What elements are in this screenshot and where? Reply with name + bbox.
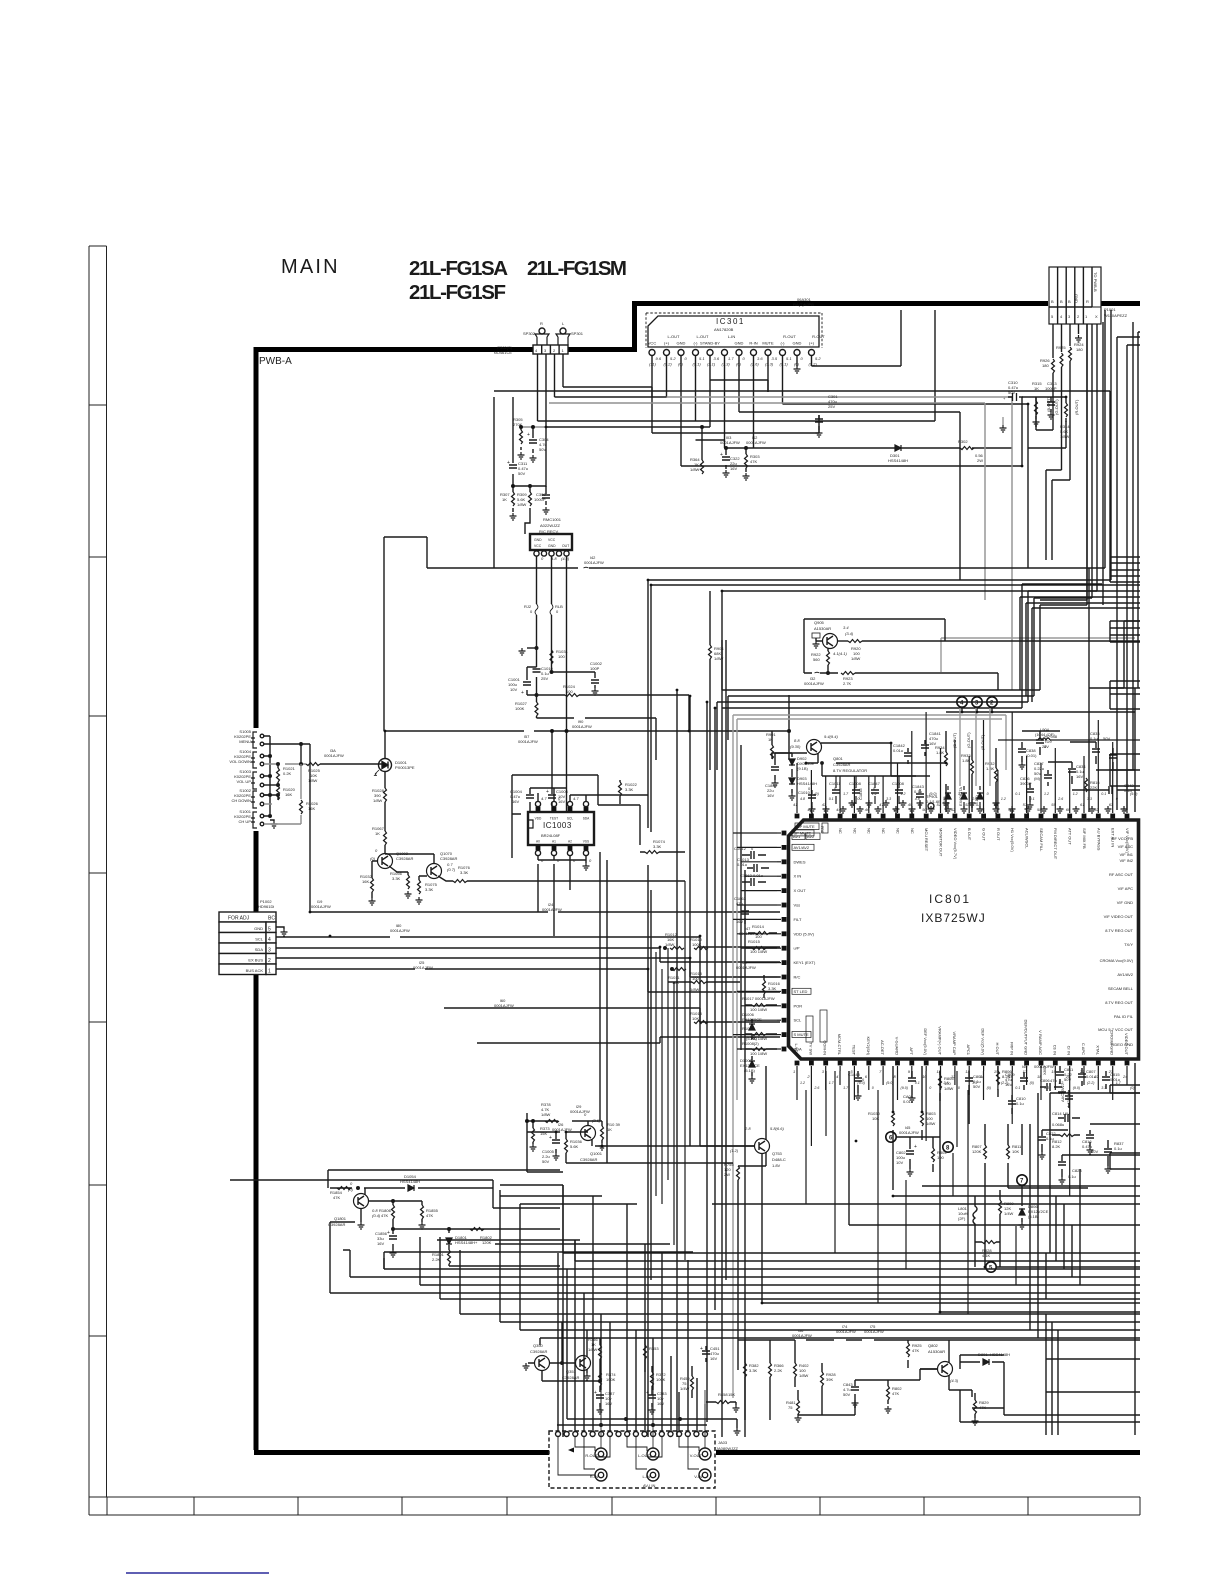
svg-text:0001AJFW: 0001AJFW: [413, 965, 433, 970]
diode D1007 EX1360CE: [740, 1056, 760, 1083]
svg-text:22: 22: [1042, 744, 1047, 749]
svg-text:SIF MIX FB: SIF MIX FB: [1082, 828, 1087, 849]
capacitor C833 0.1u 50V: [1090, 731, 1110, 764]
resistor R1806 47K: [379, 1201, 395, 1229]
svg-text:L-VOL: L-VOL: [794, 1043, 799, 1055]
svg-text:CH DOWN: CH DOWN: [231, 798, 251, 803]
connector P1001 TO PWB-B: [1049, 267, 1128, 324]
svg-text:16K: 16K: [308, 806, 315, 811]
resistor R802 47K: [885, 1380, 903, 1413]
svg-text:3.3: 3.3: [1101, 1086, 1106, 1090]
svg-text:120K: 120K: [972, 1149, 982, 1154]
svg-text:100 1/8W: 100 1/8W: [750, 1051, 767, 1056]
wire mid horizontals: [717, 640, 1040, 770]
op-amp IC801 IXB725WJ main chip body: [789, 820, 1139, 1059]
capacitor C1012: [734, 846, 766, 859]
resistor R812 8.2K: [1052, 1134, 1080, 1150]
led D1001 PX0013PE: [375, 759, 415, 776]
svg-text:(9.1): (9.1): [780, 362, 789, 367]
svg-text:PX0013PE: PX0013PE: [395, 765, 415, 770]
svg-text:(3.4): (3.4): [845, 631, 854, 636]
wire q1002 base: [372, 861, 378, 878]
svg-text:SDA: SDA: [583, 817, 590, 821]
resistor R1018 10K: [690, 1011, 708, 1024]
svg-text:0001AJFW: 0001AJFW: [746, 440, 766, 445]
svg-text:BUS ACK: BUS ACK: [246, 968, 264, 973]
svg-text:3.3K: 3.3K: [768, 986, 777, 991]
svg-text:47K: 47K: [979, 1405, 986, 1410]
svg-text:NC: NC: [867, 828, 872, 834]
svg-text:IXB725WJ: IXB725WJ: [921, 911, 986, 925]
svg-text:2.8: 2.8: [744, 1126, 751, 1131]
capacitor C1003 10u 16V: [546, 788, 569, 814]
svg-text:3.3: 3.3: [1087, 797, 1092, 801]
svg-text:1/4W: 1/4W: [1004, 1211, 1014, 1216]
transistor Q1001 C3928AR: [580, 1112, 603, 1162]
wire l57 long run: [384, 695, 789, 760]
transistor Q905 A1530AR: [709, 591, 1141, 770]
diode D903 HSS4148H: [789, 773, 818, 800]
svg-text:+: +: [914, 1144, 917, 1150]
svg-text:5.1: 5.1: [699, 356, 705, 361]
svg-text:3.6: 3.6: [714, 356, 720, 361]
wire long verticals below chip: [762, 1071, 1140, 1338]
svg-text:H OUT: H OUT: [995, 1043, 1000, 1056]
diode trio D908 D909 D907 EX0263TA: [942, 732, 985, 808]
svg-text:15K: 15K: [540, 1131, 547, 1136]
pin numbers top: [793, 802, 1128, 812]
svg-text:16V: 16V: [730, 466, 737, 471]
resistor R1012 16K 1/8W: [664, 932, 740, 1024]
node 6: [886, 1132, 940, 1142]
SEC_BOTTOM: [328, 1102, 1140, 1488]
wire l79 run: [444, 1008, 780, 1022]
right pin labels: [1098, 836, 1134, 1047]
svg-text:47K: 47K: [750, 459, 757, 464]
wire horizontals right lower: [712, 1093, 1140, 1204]
svg-text:A022WJZZ: A022WJZZ: [540, 523, 561, 528]
svg-text:XTAL: XTAL: [1095, 1045, 1100, 1055]
svg-text:SCL: SCL: [255, 937, 264, 942]
resistor R804 100: [932, 1137, 948, 1172]
svg-text:50V: 50V: [843, 1392, 850, 1397]
svg-text:1.7: 1.7: [843, 792, 849, 796]
ic IC1003 BR24L08F: [528, 788, 594, 870]
svg-text:C1012: C1012: [734, 846, 747, 851]
resistor R816 22K: [1085, 778, 1101, 792]
svg-text:AU BYPASS: AU BYPASS: [1096, 828, 1101, 851]
svg-text:(M): (M): [1034, 776, 1041, 781]
svg-text:0.1u: 0.1u: [1114, 1146, 1122, 1151]
wire speaker drops: [538, 354, 564, 427]
svg-text:(9.0): (9.0): [901, 1086, 908, 1090]
svg-text:4.8: 4.8: [915, 797, 920, 801]
svg-text:Q351: Q351: [566, 1369, 577, 1374]
svg-text:IC1003: IC1003: [543, 821, 572, 830]
svg-text:0001AJFW: 0001AJFW: [570, 1109, 590, 1114]
resistor R926 180: [1040, 358, 1055, 430]
svg-text:MCU 5.7 VCC OUT: MCU 5.7 VCC OUT: [1098, 1027, 1133, 1032]
svg-text:R1015: R1015: [748, 939, 761, 944]
svg-text:(-): (-): [781, 341, 786, 346]
wire r315 net: [1022, 397, 1066, 448]
svg-text:(2F): (2F): [958, 1216, 966, 1221]
svg-text:47K: 47K: [333, 1195, 340, 1200]
svg-text:0.01u: 0.01u: [737, 862, 747, 867]
svg-text:0: 0: [1116, 797, 1118, 801]
wire bottom pin drops: [797, 1071, 1127, 1196]
capacitor C834 0.1u 16V: [1068, 762, 1086, 784]
svg-text:2.7K: 2.7K: [843, 681, 852, 686]
capacitor R837 0.1u: [1104, 1140, 1124, 1173]
svg-text:1/8W: 1/8W: [665, 942, 675, 947]
svg-text:0001AJFW: 0001AJFW: [736, 965, 756, 970]
resistor R302 0.56 2W: [958, 439, 984, 463]
capacitor C837 0.22u 50V: [1034, 761, 1052, 786]
svg-text:1/8W: 1/8W: [308, 778, 318, 783]
wire y695 run + resistor R1024 100: [527, 695, 689, 731]
svg-text:MUTE: MUTE: [762, 341, 774, 346]
svg-text:R: R: [1086, 299, 1089, 304]
svg-text:16V: 16V: [512, 799, 519, 804]
bottom pin labels vertical: [794, 1020, 1129, 1056]
svg-text:16V: 16V: [657, 1401, 664, 1406]
svg-text:SCL: SCL: [567, 817, 573, 821]
capacitor C301 470u 25V: [815, 394, 838, 437]
connector P302(S) NO461CE: [494, 345, 568, 355]
svg-text:1.7: 1.7: [728, 356, 734, 361]
svg-text:VCC: VCC: [648, 341, 657, 346]
svg-text:0.1u: 0.1u: [1090, 736, 1098, 741]
IC301 pins 1-12: [649, 350, 821, 367]
svg-text:0.01u: 0.01u: [1086, 1074, 1096, 1079]
svg-text:+: +: [507, 460, 510, 466]
diode D1006 EX1360CE: [742, 1012, 762, 1041]
capacitor C1843 0.1u: [912, 784, 925, 809]
svg-text:3: 3: [268, 948, 271, 954]
svg-text:(9.0): (9.0): [1130, 792, 1137, 796]
node 4: [957, 697, 967, 712]
svg-text:2: 2: [806, 1074, 810, 1079]
svg-text:0.068u: 0.068u: [1052, 1122, 1064, 1127]
svg-text:(2.1): (2.1): [707, 362, 716, 367]
transistor Q801 C3928AR 8.TV REGULATOR: [772, 734, 891, 776]
svg-text:+: +: [720, 452, 723, 458]
svg-text:0.1: 0.1: [1101, 792, 1106, 796]
svg-text:180: 180: [1042, 363, 1049, 368]
svg-text:180: 180: [1076, 347, 1083, 352]
capacitor C1840 22u 16V: [765, 753, 792, 798]
svg-text:4.7: 4.7: [541, 796, 547, 801]
capacitor C814 16V 0.068u: [1052, 1111, 1080, 1127]
svg-text:(0.7): (0.7): [447, 867, 456, 872]
svg-text:VIF GND: VIF GND: [1117, 900, 1133, 905]
wire node feeds: [960, 708, 990, 786]
resistor R459 75 1/4W: [680, 1366, 694, 1398]
svg-text:10V: 10V: [896, 1160, 903, 1165]
capacitor C1002 100P: [550, 661, 602, 695]
resistor R1079 1K: [599, 1122, 621, 1150]
svg-text:FM DIRECT OUT: FM DIRECT OUT: [1053, 828, 1058, 860]
svg-text:V-IN: V-IN: [694, 1474, 702, 1479]
svg-text:VDD (5.0V): VDD (5.0V): [794, 931, 815, 936]
resistor R1802 120K: [470, 1228, 493, 1246]
svg-text:NC: NC: [910, 828, 915, 834]
svg-text:(2.2): (2.2): [1001, 1081, 1008, 1085]
svg-text:50V: 50V: [1091, 1149, 1098, 1154]
SEC_IC801: [733, 638, 1139, 1398]
svg-text:0: 0: [929, 1086, 931, 1090]
svg-text:50V: 50V: [1103, 736, 1110, 741]
ground row pin band: [809, 806, 1128, 813]
svg-text:0001AJFW: 0001AJFW: [390, 928, 410, 933]
wire d1001 to q1002: [384, 731, 386, 788]
resistor R806 8.2K: [997, 1066, 1013, 1097]
speaker SP302: [523, 321, 549, 345]
svg-text:(R-OUT): (R-OUT): [980, 734, 985, 750]
resistor R1028 390 1/8W: [372, 788, 387, 831]
svg-text:2.2K: 2.2K: [774, 1368, 783, 1373]
svg-text:1.2: 1.2: [1058, 1081, 1063, 1085]
svg-text:AV1: AV1: [793, 834, 801, 839]
svg-text:0.1u: 0.1u: [1016, 1101, 1024, 1106]
node 3: [972, 697, 982, 712]
resistor R307 1K: [500, 486, 517, 520]
resistor R925 mid: [1054, 345, 1066, 436]
svg-text:16V: 16V: [710, 1356, 717, 1361]
svg-text:VIDEO Vcc(9.7V): VIDEO Vcc(9.7V): [953, 828, 958, 860]
svg-text:50V: 50V: [518, 471, 525, 476]
svg-text:RMC1001: RMC1001: [543, 517, 562, 522]
svg-text:100: 100: [692, 976, 699, 981]
jumper RJ2: [524, 604, 538, 615]
resistor R1801 2.2K: [432, 1249, 451, 1266]
svg-text:1.2: 1.2: [800, 1081, 805, 1085]
svg-text:L-OUT: L-OUT: [697, 334, 710, 339]
svg-text:R925: R925: [1056, 345, 1066, 350]
svg-text:G OUT: G OUT: [982, 828, 987, 841]
resistor R378 4.7K 1/8W: [526, 1102, 559, 1123]
wire vol-down line: [264, 763, 306, 765]
svg-text:0: 0: [872, 1086, 874, 1090]
svg-text:Q1801: Q1801: [334, 1216, 347, 1221]
svg-text:10K: 10K: [692, 1016, 699, 1021]
svg-text:1.8V: 1.8V: [772, 1163, 781, 1168]
capacitor C1005 2.2u 50V: [542, 1132, 560, 1164]
svg-text:PAL ID FIL: PAL ID FIL: [1114, 1014, 1134, 1019]
svg-text:Cr IN: Cr IN: [1067, 1046, 1072, 1055]
svg-text:4.1(4.1): 4.1(4.1): [833, 651, 847, 656]
svg-text:MCU RESET: MCU RESET: [924, 828, 929, 852]
svg-text:560: 560: [813, 657, 820, 662]
resistor R309 5.6K 1/8W: [517, 486, 532, 534]
svg-text:9.6: 9.6: [656, 356, 662, 361]
svg-text:NC: NC: [852, 828, 857, 834]
pin numbers bottom: [793, 1069, 1128, 1079]
svg-text:ATT OUT: ATT OUT: [1068, 828, 1073, 845]
op-amp IC301 box: [648, 316, 819, 347]
wire bottom right runs: [960, 1359, 1140, 1422]
svg-text:VIF APC: VIF APC: [1118, 886, 1133, 891]
wire ja03 top rails: [557, 1419, 737, 1428]
svg-text:AC-DET: AC-DET: [880, 1040, 885, 1055]
svg-text:R-OUT: R-OUT: [812, 334, 825, 339]
resistor R1010 100K: [690, 937, 708, 950]
svg-text:100: 100: [937, 1155, 944, 1160]
svg-text:(3.3): (3.3): [765, 362, 774, 367]
wire mid vertical bundle: [677, 640, 745, 1437]
svg-text:15K: 15K: [728, 1392, 735, 1397]
svg-text:X: X: [1095, 314, 1098, 319]
svg-text:1/8W: 1/8W: [690, 987, 700, 992]
svg-text:120K: 120K: [482, 1240, 492, 1245]
svg-text:1/8W: 1/8W: [373, 798, 383, 803]
svg-text:3.3: 3.3: [972, 1081, 977, 1085]
svg-text:2W: 2W: [977, 458, 983, 463]
resistor R1025 10K 1/8W: [306, 763, 321, 784]
resistor R1017 100 1/8W: [742, 996, 777, 1012]
svg-text:100K: 100K: [656, 1377, 666, 1382]
svg-text:RA(T)NJPB: RA(T)NJPB: [793, 302, 814, 307]
svg-text:(G-OUT): (G-OUT): [1054, 399, 1059, 415]
svg-text:Q905: Q905: [814, 620, 825, 625]
wire q1001 rails: [500, 1102, 755, 1437]
svg-text:0.01u: 0.01u: [753, 873, 763, 878]
svg-text:PRG: PRG: [820, 826, 824, 834]
resistor R1011 16K: [668, 968, 686, 986]
svg-text:16V: 16V: [605, 1401, 612, 1406]
resistor R924 180: [1069, 342, 1085, 442]
svg-text:8.TV REG OUT: 8.TV REG OUT: [1105, 1000, 1133, 1005]
resistor R1026 16K gray: [264, 764, 319, 824]
SEC_MIDLEFT: [219, 397, 790, 1043]
svg-text:+: +: [549, 1135, 552, 1141]
resistor R353: [644, 1338, 660, 1372]
capacitor C811 0.22 50V: [1056, 1066, 1074, 1084]
svg-text:HD961Di: HD961Di: [258, 904, 274, 909]
pin column IC801 left pins 40-25: [777, 831, 786, 1052]
wire rgb staircase: [1036, 397, 1070, 560]
svg-text:2.6: 2.6: [971, 797, 977, 801]
svg-text:10V: 10V: [510, 687, 517, 692]
svg-text:5.6K: 5.6K: [570, 1144, 579, 1149]
resistor R1014 100: [748, 924, 777, 939]
capacitor C801 0.1u 50V: [965, 1071, 983, 1095]
svg-text:V-OUT: V-OUT: [690, 1453, 703, 1458]
wire l24 long run: [310, 911, 780, 913]
svg-text:CH UP: CH UP: [239, 819, 252, 824]
wire l90 run: [537, 718, 657, 760]
svg-text:16V: 16V: [767, 793, 774, 798]
svg-text:2W: 2W: [724, 1172, 730, 1177]
svg-text:1.7: 1.7: [843, 1086, 849, 1090]
resistor R356 1K 1/8W: [588, 1337, 602, 1381]
svg-text:3: 3: [822, 1069, 825, 1074]
wire l05 line: [230, 1180, 493, 1188]
svg-text:SECAM BELL: SECAM BELL: [1108, 986, 1134, 991]
wire ic1003 sda scl to right: [570, 795, 648, 845]
connector P1002 FOR ADJ: [219, 899, 288, 975]
svg-text:47K: 47K: [892, 1391, 899, 1396]
svg-text:(2.6): (2.6): [592, 1118, 601, 1123]
capacitor C1841 470u 16V: [921, 731, 942, 756]
svg-text:VIF Vcc(5.0V): VIF Vcc(5.0V): [1125, 828, 1130, 854]
transistor Q1002 C3928AR: [370, 848, 413, 869]
svg-text:25V: 25V: [541, 676, 548, 681]
svg-text:u/P: u/P: [794, 946, 800, 951]
resistor R923 2.7K: [841, 672, 998, 691]
capacitor C1013 0.01u: [737, 857, 769, 872]
jumper RLB: [550, 604, 563, 615]
svg-text:5.2: 5.2: [815, 356, 821, 361]
svg-text:3.3K: 3.3K: [625, 787, 634, 792]
svg-text:1/4W: 1/4W: [680, 1386, 690, 1391]
svg-text:AV1/AV2: AV1/AV2: [794, 845, 810, 850]
svg-text:(G-OUT): (G-OUT): [966, 732, 971, 748]
svg-text:AV-I IN: AV-I IN: [643, 1483, 655, 1488]
svg-text:R1008(2): R1008(2): [742, 1041, 759, 1046]
node 8: [943, 1142, 953, 1152]
wire long pair y580: [648, 310, 1140, 832]
wire long l42 run: [384, 310, 1140, 1437]
transistor Q350 C3928AR: [523, 1343, 601, 1381]
resistor R1030 10K: [868, 1066, 895, 1190]
svg-text:C3928AR: C3928AR: [396, 856, 413, 861]
resistor R828 4.1K: [975, 1241, 1000, 1259]
svg-text:POR: POR: [794, 1003, 803, 1008]
resistor R1013 100 1/8W: [668, 971, 740, 992]
svg-text:R: R: [540, 321, 543, 326]
svg-text:SCL: SCL: [794, 1018, 803, 1023]
jack V-OUT: [690, 1448, 711, 1460]
svg-text:X IN: X IN: [794, 874, 802, 879]
switch S1002 CH DOWN: [231, 788, 263, 808]
svg-text:GND: GND: [1074, 294, 1079, 303]
svg-text:AV2: AV2: [807, 834, 815, 839]
svg-text:100 1/8W: 100 1/8W: [750, 949, 767, 954]
svg-text:FOR ADJ: FOR ADJ: [228, 916, 250, 922]
resistor R811 10K: [1007, 1124, 1023, 1188]
svg-text:Vss: Vss: [794, 903, 801, 908]
wire right edge stubs: [1110, 557, 1140, 1169]
svg-text:R458: R458: [718, 1392, 728, 1397]
svg-text:L-IN: L-IN: [728, 334, 736, 339]
svg-text:0001AJFW: 0001AJFW: [899, 1130, 919, 1135]
svg-text:3.3K: 3.3K: [460, 870, 469, 875]
svg-text:+: +: [521, 690, 524, 696]
capacitor C842 0.1u: [1104, 783, 1134, 794]
svg-text:0001AJFW: 0001AJFW: [324, 753, 344, 758]
capacitor C938 TD9: [1036, 731, 1058, 755]
svg-text:BC: BC: [268, 916, 275, 922]
capacitor C304 4.7u 50V: [527, 426, 549, 462]
svg-text:TX/Y: TX/Y: [1124, 942, 1133, 947]
resistor R373 15K: [530, 1120, 551, 1151]
transistor Q351 C3928AR: [561, 1322, 591, 1380]
svg-text:75: 75: [788, 1405, 793, 1410]
svg-text:4.7: 4.7: [573, 796, 579, 801]
svg-text:AFT: AFT: [909, 1047, 914, 1055]
svg-text:TO PWB-B: TO PWB-B: [1093, 272, 1098, 292]
resistor R1022 3.3K: [619, 780, 638, 804]
resistor R1015 100 1/8W: [745, 939, 777, 954]
svg-text:1.2: 1.2: [872, 792, 877, 796]
svg-text:2.6: 2.6: [943, 1081, 949, 1085]
capacitor C383 10u 16V: [646, 1390, 667, 1414]
svg-text:(0): (0): [987, 1086, 991, 1090]
resistor R314 5.6K 1/8W: [1060, 397, 1070, 439]
svg-text:3.3K: 3.3K: [749, 1368, 758, 1373]
